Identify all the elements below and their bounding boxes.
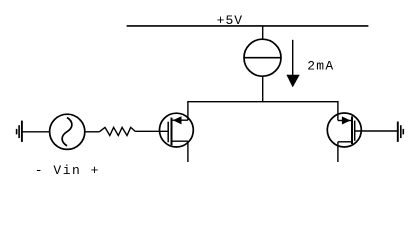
- svg-text:- Vin +: - Vin +: [35, 163, 100, 178]
- source V1 (AC, Vin): [50, 114, 85, 149]
- wire Q1 source tail: [187, 141, 189, 162]
- wire drain bus: [188, 102, 338, 121]
- arrow 2mA current direction: [286, 40, 299, 88]
- transistor Q1 (left): [160, 113, 194, 147]
- ground (right, at Q2 gate): [398, 122, 404, 142]
- wire Q2 source tail: [337, 142, 339, 162]
- resistor R1: [99, 127, 135, 135]
- current source I1: [244, 39, 281, 76]
- wire Q2 gate to ground: [355, 130, 398, 132]
- wire current source to drain bus: [262, 76, 264, 102]
- svg-text:2mA: 2mA: [307, 58, 334, 73]
- transistor Q2 (right): [327, 113, 361, 147]
- wire ground to source V1: [22, 131, 50, 133]
- wire Q1 gate: [136, 130, 169, 132]
- wire +5V rail: [127, 25, 369, 27]
- wire rail to current source: [262, 26, 264, 40]
- svg-text:+5V: +5V: [217, 13, 244, 28]
- wire V1 to resistor: [85, 131, 100, 133]
- ground (left, at Vin source): [17, 121, 22, 142]
